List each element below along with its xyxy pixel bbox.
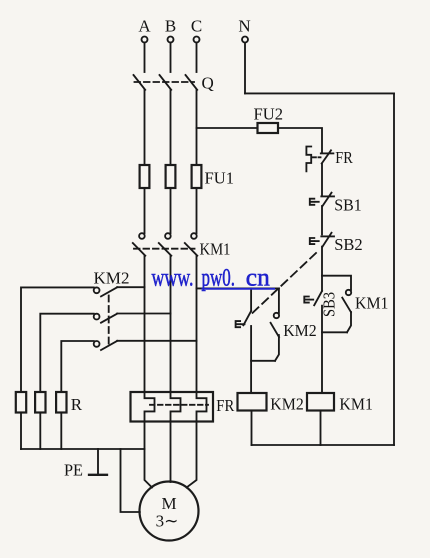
- wire KM2 contact 3 to resistor R3: [61, 341, 94, 392]
- wire FU1 to KM1 phase C: [196, 188, 198, 233]
- contactor KM1 main contacts: [133, 233, 231, 258]
- wire FR box to motor phase A: [145, 422, 153, 488]
- svg-text:R: R: [71, 395, 83, 414]
- svg-text:C: C: [191, 17, 202, 36]
- wire R3 to bottom bus: [60, 413, 62, 450]
- wire A terminal to Q: [144, 43, 146, 73]
- wire FU1 to KM1 phase A: [144, 188, 146, 233]
- node B: [165, 17, 176, 43]
- wire R2 to bottom bus: [39, 413, 41, 450]
- wire bus drop to motor: [121, 449, 140, 512]
- thermal relay FR heater box: [131, 392, 235, 422]
- svg-text:Q: Q: [202, 74, 214, 93]
- svg-text:N: N: [238, 17, 250, 36]
- wire KM1 to FR box phase A (tap at y287): [144, 256, 146, 392]
- contact KM1 auxiliary (self-hold, NO): [342, 290, 388, 333]
- svg-text:3∼: 3∼: [156, 512, 179, 531]
- fuse FU2: [254, 105, 284, 134]
- wire R1 to bottom bus: [20, 413, 22, 450]
- svg-text:KM1: KM1: [200, 240, 231, 259]
- wire resistor bottom bus (joins phase A below FR): [21, 448, 145, 450]
- wire FR box to motor phase B: [170, 422, 172, 483]
- wire SB1 to SB2: [321, 206, 323, 234]
- svg-text:KM2: KM2: [283, 321, 317, 340]
- wire B terminal to Q: [170, 43, 172, 73]
- contactor KM2 main contacts (shorting contacts): [94, 269, 130, 351]
- wire phase C tap to FU2: [197, 127, 258, 129]
- coil KM1: [307, 393, 373, 414]
- svg-text:cn: cn: [246, 265, 270, 292]
- fuse FU1: [140, 165, 234, 188]
- svg-text:SB3: SB3: [319, 292, 338, 317]
- watermark www.pw0.cn: [152, 265, 276, 292]
- resistor R (bank of three): [16, 392, 83, 414]
- wire join to KM2 coil: [251, 361, 275, 393]
- push button KM2-branch (NO, linked to SB2): [236, 288, 252, 360]
- svg-text:KM1: KM1: [355, 294, 389, 313]
- node A: [138, 17, 151, 43]
- wire FU2 to control rail: [278, 128, 322, 152]
- svg-text:KM2: KM2: [94, 269, 130, 288]
- wire FR box to motor phase C: [187, 422, 197, 488]
- wire KM1 coil to bottom bus: [320, 411, 322, 446]
- wire FR contact to SB1: [321, 164, 323, 195]
- svg-text:FU1: FU1: [205, 169, 235, 188]
- svg-text:SB1: SB1: [334, 196, 362, 215]
- svg-text:KM1: KM1: [339, 395, 373, 414]
- wire SB2 to junction: [321, 247, 323, 276]
- svg-text:FR: FR: [335, 148, 353, 167]
- svg-text:KM2: KM2: [270, 395, 304, 414]
- wire KM2 coil to bottom bus: [251, 411, 253, 446]
- ground PE: [64, 449, 107, 480]
- wire Q to FU1 phase C (junction to FU2 at y128): [196, 90, 198, 165]
- wire KM2 contact 2 to resistor R2: [40, 314, 94, 392]
- svg-text:A: A: [138, 17, 151, 36]
- motor M 3-phase: [140, 482, 199, 541]
- mechanical link SB2 to KM2 button (dashed): [250, 253, 316, 315]
- wire N rail right side: [393, 93, 395, 445]
- svg-text:PE: PE: [64, 461, 83, 480]
- wire control bottom bus to N rail: [252, 444, 395, 446]
- contact KM2 auxiliary (self-hold, NO): [271, 288, 317, 360]
- svg-text:B: B: [165, 17, 176, 36]
- switch Q: [134, 74, 214, 93]
- wire KM2 contact 1 to resistor R1: [21, 287, 94, 392]
- wire C terminal to Q: [196, 43, 198, 73]
- wire join to KM1 coil: [322, 332, 347, 393]
- svg-text:pw0.: pw0.: [202, 265, 236, 292]
- push button SB3 (start, NO): [304, 276, 338, 333]
- wire Q to FU1 phase B: [170, 90, 172, 165]
- wire junction to KM1 aux branch: [322, 276, 351, 290]
- svg-text:M: M: [161, 494, 176, 513]
- push button SB1 (stop, NC): [310, 193, 362, 215]
- wire KM2 contact 3 to phase C: [117, 340, 196, 342]
- wire KM2 contact 1 to phase A: [117, 286, 144, 288]
- push button SB2 (compound, NC half): [310, 233, 363, 254]
- svg-text:www.: www.: [152, 265, 194, 292]
- svg-text:FR: FR: [216, 396, 235, 415]
- node C: [191, 17, 202, 43]
- wire N terminal down: [244, 43, 246, 94]
- node N: [238, 17, 250, 43]
- wire FU1 to KM1 phase B: [170, 188, 172, 233]
- svg-text:SB2: SB2: [334, 235, 363, 254]
- coil KM2: [238, 393, 304, 414]
- wire Q to FU1 phase A: [144, 90, 146, 165]
- wire KM2 contact 2 to phase B: [117, 313, 170, 315]
- wire N rail top: [245, 92, 394, 94]
- wire KM1 to FR box phase B (tap at y313.5): [170, 256, 172, 392]
- thermal relay contact FR (NC): [306, 147, 353, 172]
- wire KM1 to FR box phase C (taps at y288.4 and y341): [196, 256, 198, 392]
- wire KM2 branch tap from phase C: [197, 287, 279, 289]
- svg-text:FU2: FU2: [254, 105, 284, 124]
